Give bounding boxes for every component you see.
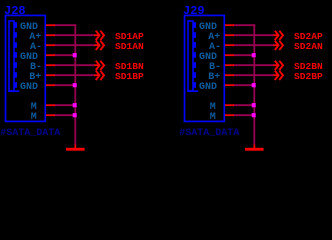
svg-text:SD2AN: SD2AN: [294, 41, 323, 52]
svg-text:SD1BP: SD1BP: [115, 71, 144, 82]
svg-text:J29: J29: [183, 4, 205, 18]
svg-text:SD2BP: SD2BP: [294, 71, 323, 82]
svg-text:J28: J28: [4, 4, 26, 18]
svg-text:SD1AN: SD1AN: [115, 41, 144, 52]
